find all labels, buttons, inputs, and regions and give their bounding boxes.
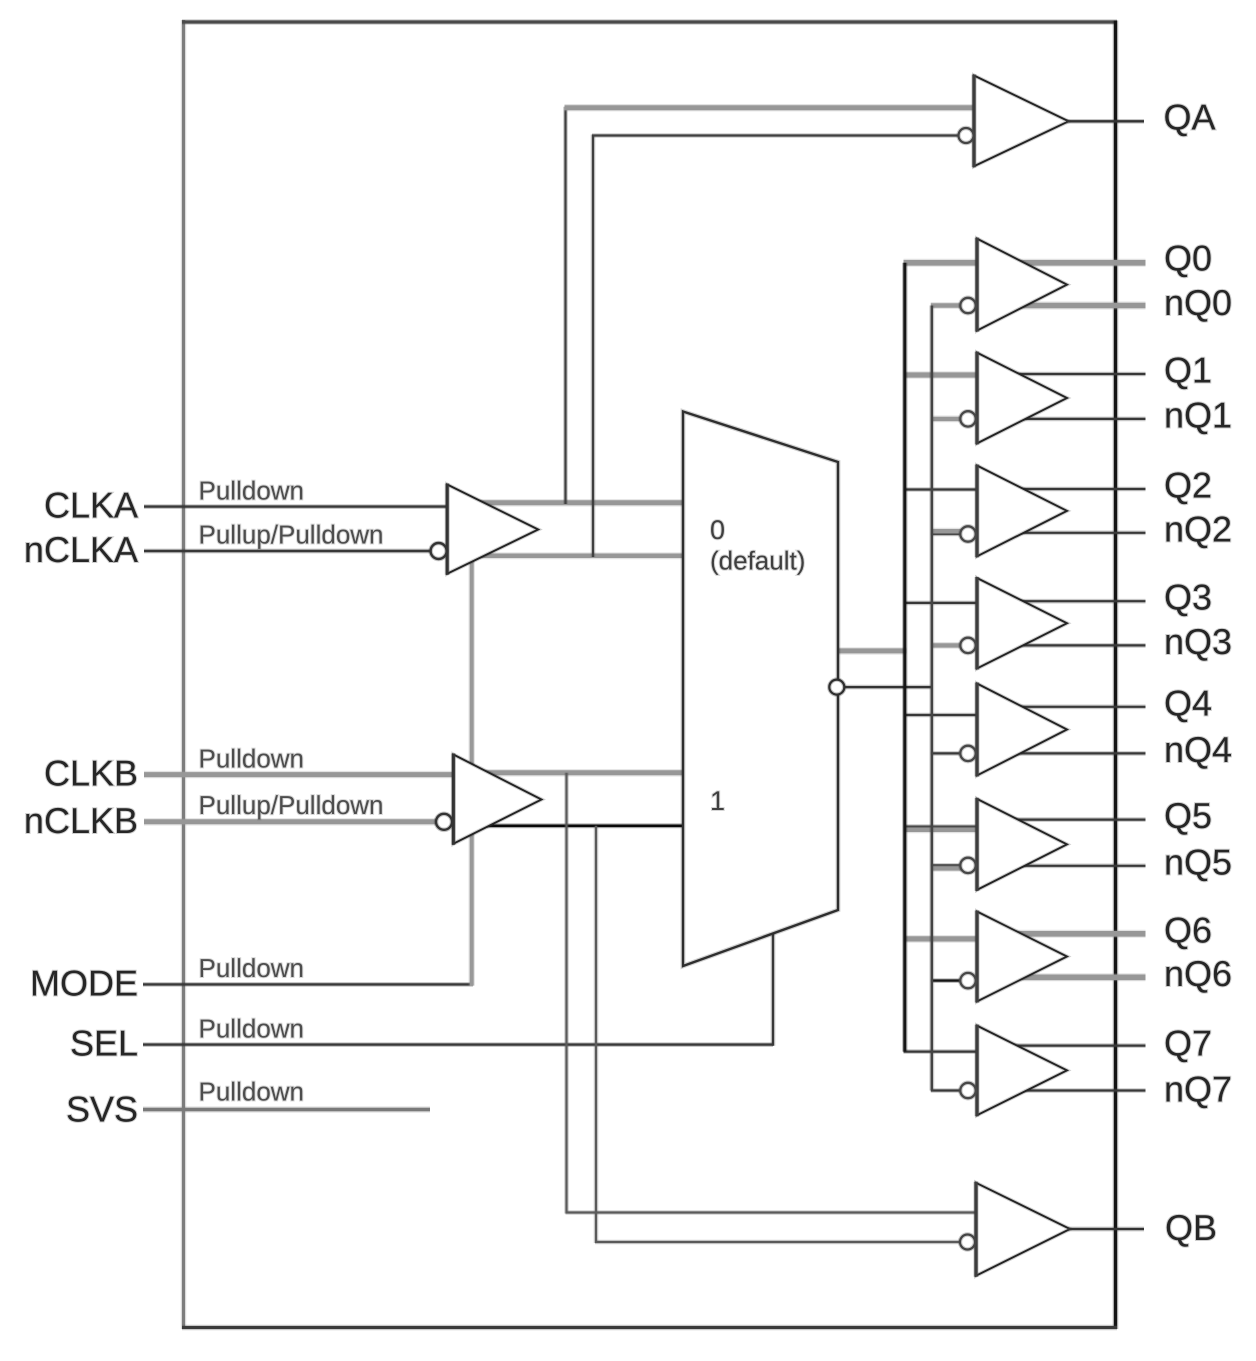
svg-text:Q3: Q3 bbox=[1164, 577, 1212, 618]
Q5 driver inverting bubble bbox=[960, 858, 975, 873]
input buffer U1 (CLKA differential receiver) bbox=[447, 485, 538, 574]
output driver Q0/nQ0 bbox=[977, 239, 1067, 331]
wire nQ3 output line bbox=[1000, 643, 1146, 648]
wire nQ7 output line bbox=[1000, 1088, 1146, 1093]
wire Q1 feed from Q bus bbox=[904, 371, 985, 379]
svg-text:nQ5: nQ5 bbox=[1164, 842, 1232, 883]
svg-text:nQ7: nQ7 bbox=[1164, 1069, 1232, 1110]
svg-text:CLKA: CLKA bbox=[44, 485, 138, 526]
Q0 driver inverting bubble bbox=[960, 298, 975, 313]
svg-text:Q1: Q1 bbox=[1164, 350, 1212, 391]
wire nCLKA input bbox=[144, 549, 431, 554]
mux inverted-output bubble bbox=[829, 680, 844, 695]
wire SVS input bbox=[143, 1107, 430, 1113]
wire CLKA input bbox=[144, 504, 447, 509]
svg-text:SVS: SVS bbox=[66, 1089, 138, 1130]
svg-text:nCLKA: nCLKA bbox=[24, 529, 138, 570]
svg-text:(default): (default) bbox=[710, 546, 805, 576]
svg-text:nQ2: nQ2 bbox=[1164, 509, 1232, 550]
wire mux true output to bus node bbox=[838, 647, 907, 654]
output driver Q4/nQ4 bbox=[977, 684, 1067, 776]
wire U1 complement output to mux input 0 bbox=[480, 552, 684, 559]
output driver Q1/nQ1 bbox=[977, 353, 1067, 444]
output buffer QA bbox=[974, 76, 1069, 167]
wire Q3 feed from Q bus bbox=[904, 601, 985, 606]
wire U1 true output to mux input 0 bbox=[480, 499, 684, 506]
wire Q2 output line bbox=[1000, 487, 1146, 492]
Q3 driver inverting bubble bbox=[960, 638, 975, 653]
wire nQ3 feed from nQ bus bbox=[931, 642, 962, 649]
Q4 driver inverting bubble bbox=[960, 746, 975, 761]
wire U1 true output riser to QA buffer bbox=[563, 107, 568, 504]
wire Q2 feed from Q bus bbox=[904, 487, 985, 492]
wire Q5 output line bbox=[1000, 817, 1146, 822]
svg-text:nQ4: nQ4 bbox=[1164, 729, 1232, 770]
Q7 driver inverting bubble bbox=[960, 1083, 975, 1098]
wire CLKB input bbox=[144, 771, 454, 778]
svg-text:QA: QA bbox=[1164, 96, 1216, 137]
svg-text:Q4: Q4 bbox=[1164, 683, 1212, 724]
wire U1 complement output riser to QA buffer bbox=[591, 135, 596, 558]
outer block boundary (bottom edge) bbox=[182, 1325, 1117, 1330]
bus Q distribution vertical bbox=[902, 263, 907, 1052]
wire Q6 feed from Q bus bbox=[904, 935, 985, 943]
wire Q1 output line bbox=[1000, 372, 1146, 377]
wire nQ5 output line bbox=[1000, 863, 1146, 868]
wire Q0 feed from Q bus bbox=[904, 259, 985, 267]
svg-text:Pullup/Pulldown: Pullup/Pulldown bbox=[199, 790, 384, 820]
wire QB buffer non-inverting input bbox=[566, 1210, 981, 1215]
wire Q5 feed gray highlight bbox=[904, 826, 985, 833]
wire SEL vertical riser to mux select bbox=[771, 930, 776, 1046]
wire QB output bbox=[1068, 1227, 1144, 1232]
wire QA output bbox=[1066, 119, 1144, 124]
svg-text:Q0: Q0 bbox=[1164, 238, 1212, 279]
wire nQ2 feed gray highlight bbox=[931, 528, 962, 535]
svg-text:QB: QB bbox=[1165, 1207, 1217, 1248]
svg-text:Q7: Q7 bbox=[1164, 1023, 1212, 1064]
output driver Q3/nQ3 bbox=[977, 578, 1067, 669]
wire nQ2 output line bbox=[1000, 530, 1146, 535]
svg-text:nQ3: nQ3 bbox=[1164, 621, 1232, 662]
Q1 driver inverting bubble bbox=[960, 411, 975, 426]
outer block boundary (top edge) bbox=[182, 19, 1117, 25]
svg-text:nCLKB: nCLKB bbox=[24, 800, 138, 841]
bus nQ distribution vertical bbox=[929, 306, 934, 1091]
wire U2 true output dropper to QB buffer bbox=[564, 773, 569, 1214]
wire nQ0 feed from nQ bus bbox=[931, 302, 962, 309]
wire mux inverted output to nQ bus bbox=[844, 685, 933, 690]
wire Q4 output line bbox=[1000, 704, 1146, 709]
wire nQ1 feed from nQ bus bbox=[931, 415, 962, 422]
wire nQ1 output line bbox=[1000, 417, 1146, 422]
output driver Q6/nQ6 bbox=[977, 912, 1067, 1002]
svg-text:Pulldown: Pulldown bbox=[199, 953, 305, 983]
QA inverting-input bubble bbox=[959, 128, 974, 143]
wire U2 complement output to mux input 1 bbox=[487, 823, 684, 828]
mux U3 (2:1 clock multiplexer) bbox=[683, 412, 838, 967]
wire nQ6 feed from nQ bus bbox=[931, 978, 962, 983]
wire nCLKB input bbox=[144, 818, 437, 825]
wire QA buffer non-inverting input bbox=[565, 104, 981, 111]
svg-text:Pulldown: Pulldown bbox=[199, 1014, 305, 1044]
wire SEL input bbox=[143, 1042, 773, 1047]
output driver Q7/nQ7 bbox=[977, 1026, 1067, 1116]
wire Q3 output line bbox=[1000, 599, 1146, 604]
wire QB buffer inverting input bbox=[595, 1240, 961, 1245]
U2 inverting-input bubble bbox=[436, 814, 452, 830]
wire nQ7 feed from nQ bus bbox=[931, 1088, 962, 1093]
outer block boundary (left edge) bbox=[181, 20, 186, 1329]
svg-text:MODE: MODE bbox=[30, 962, 138, 1003]
wire Q7 output line bbox=[1000, 1043, 1146, 1048]
output buffer QB bbox=[976, 1183, 1070, 1276]
svg-text:Q2: Q2 bbox=[1164, 465, 1212, 506]
svg-text:nQ6: nQ6 bbox=[1164, 953, 1232, 994]
U1 inverting-input bubble bbox=[431, 543, 447, 559]
output driver Q5/nQ5 bbox=[977, 799, 1067, 890]
svg-text:1: 1 bbox=[710, 786, 725, 816]
wire Q4 feed from Q bus bbox=[904, 713, 985, 718]
wire U2 true output to mux input 1 bbox=[485, 769, 684, 776]
wire nQ5 feed from nQ bus bbox=[931, 863, 962, 868]
svg-text:Pulldown: Pulldown bbox=[199, 744, 305, 774]
svg-text:Q6: Q6 bbox=[1164, 910, 1212, 951]
wire nQ4 feed from nQ bus bbox=[931, 751, 962, 756]
wire MODE input bbox=[143, 982, 473, 987]
wire nQ4 output line bbox=[1000, 751, 1146, 756]
wire nQ0 output line bbox=[1000, 302, 1146, 310]
input buffer U2 (CLKB differential receiver) bbox=[453, 755, 541, 844]
Q2 driver inverting bubble bbox=[960, 526, 975, 541]
wire MODE vertical riser to buffer U1 bbox=[469, 545, 475, 986]
wire nQ6 output line bbox=[1000, 973, 1146, 981]
QB inverting-input bubble bbox=[960, 1235, 975, 1250]
svg-text:nQ1: nQ1 bbox=[1164, 395, 1232, 436]
wire Q5 feed from Q bus bbox=[904, 824, 985, 829]
svg-text:Q5: Q5 bbox=[1164, 795, 1212, 836]
svg-text:nQ0: nQ0 bbox=[1164, 282, 1232, 323]
svg-text:CLKB: CLKB bbox=[44, 753, 138, 794]
svg-text:Pulldown: Pulldown bbox=[199, 1077, 305, 1107]
svg-text:SEL: SEL bbox=[70, 1023, 138, 1064]
wire nQ5 feed gray highlight bbox=[931, 865, 962, 872]
Q6 driver inverting bubble bbox=[960, 973, 975, 988]
output driver Q2/nQ2 bbox=[977, 466, 1067, 557]
svg-text:0: 0 bbox=[710, 515, 725, 545]
wire nQ2 feed from nQ bus bbox=[931, 532, 962, 537]
wire Q7 feed from Q bus bbox=[904, 1049, 985, 1054]
svg-text:Pullup/Pulldown: Pullup/Pulldown bbox=[199, 520, 384, 550]
wire Q0 output line bbox=[1000, 259, 1146, 267]
svg-text:Pulldown: Pulldown bbox=[199, 476, 305, 506]
wire Q6 output line bbox=[1000, 930, 1146, 938]
outer block boundary (right edge) bbox=[1113, 21, 1119, 1330]
wire U2 complement output dropper to QB buffer bbox=[594, 826, 599, 1243]
wire QA buffer inverting input bbox=[592, 133, 959, 138]
